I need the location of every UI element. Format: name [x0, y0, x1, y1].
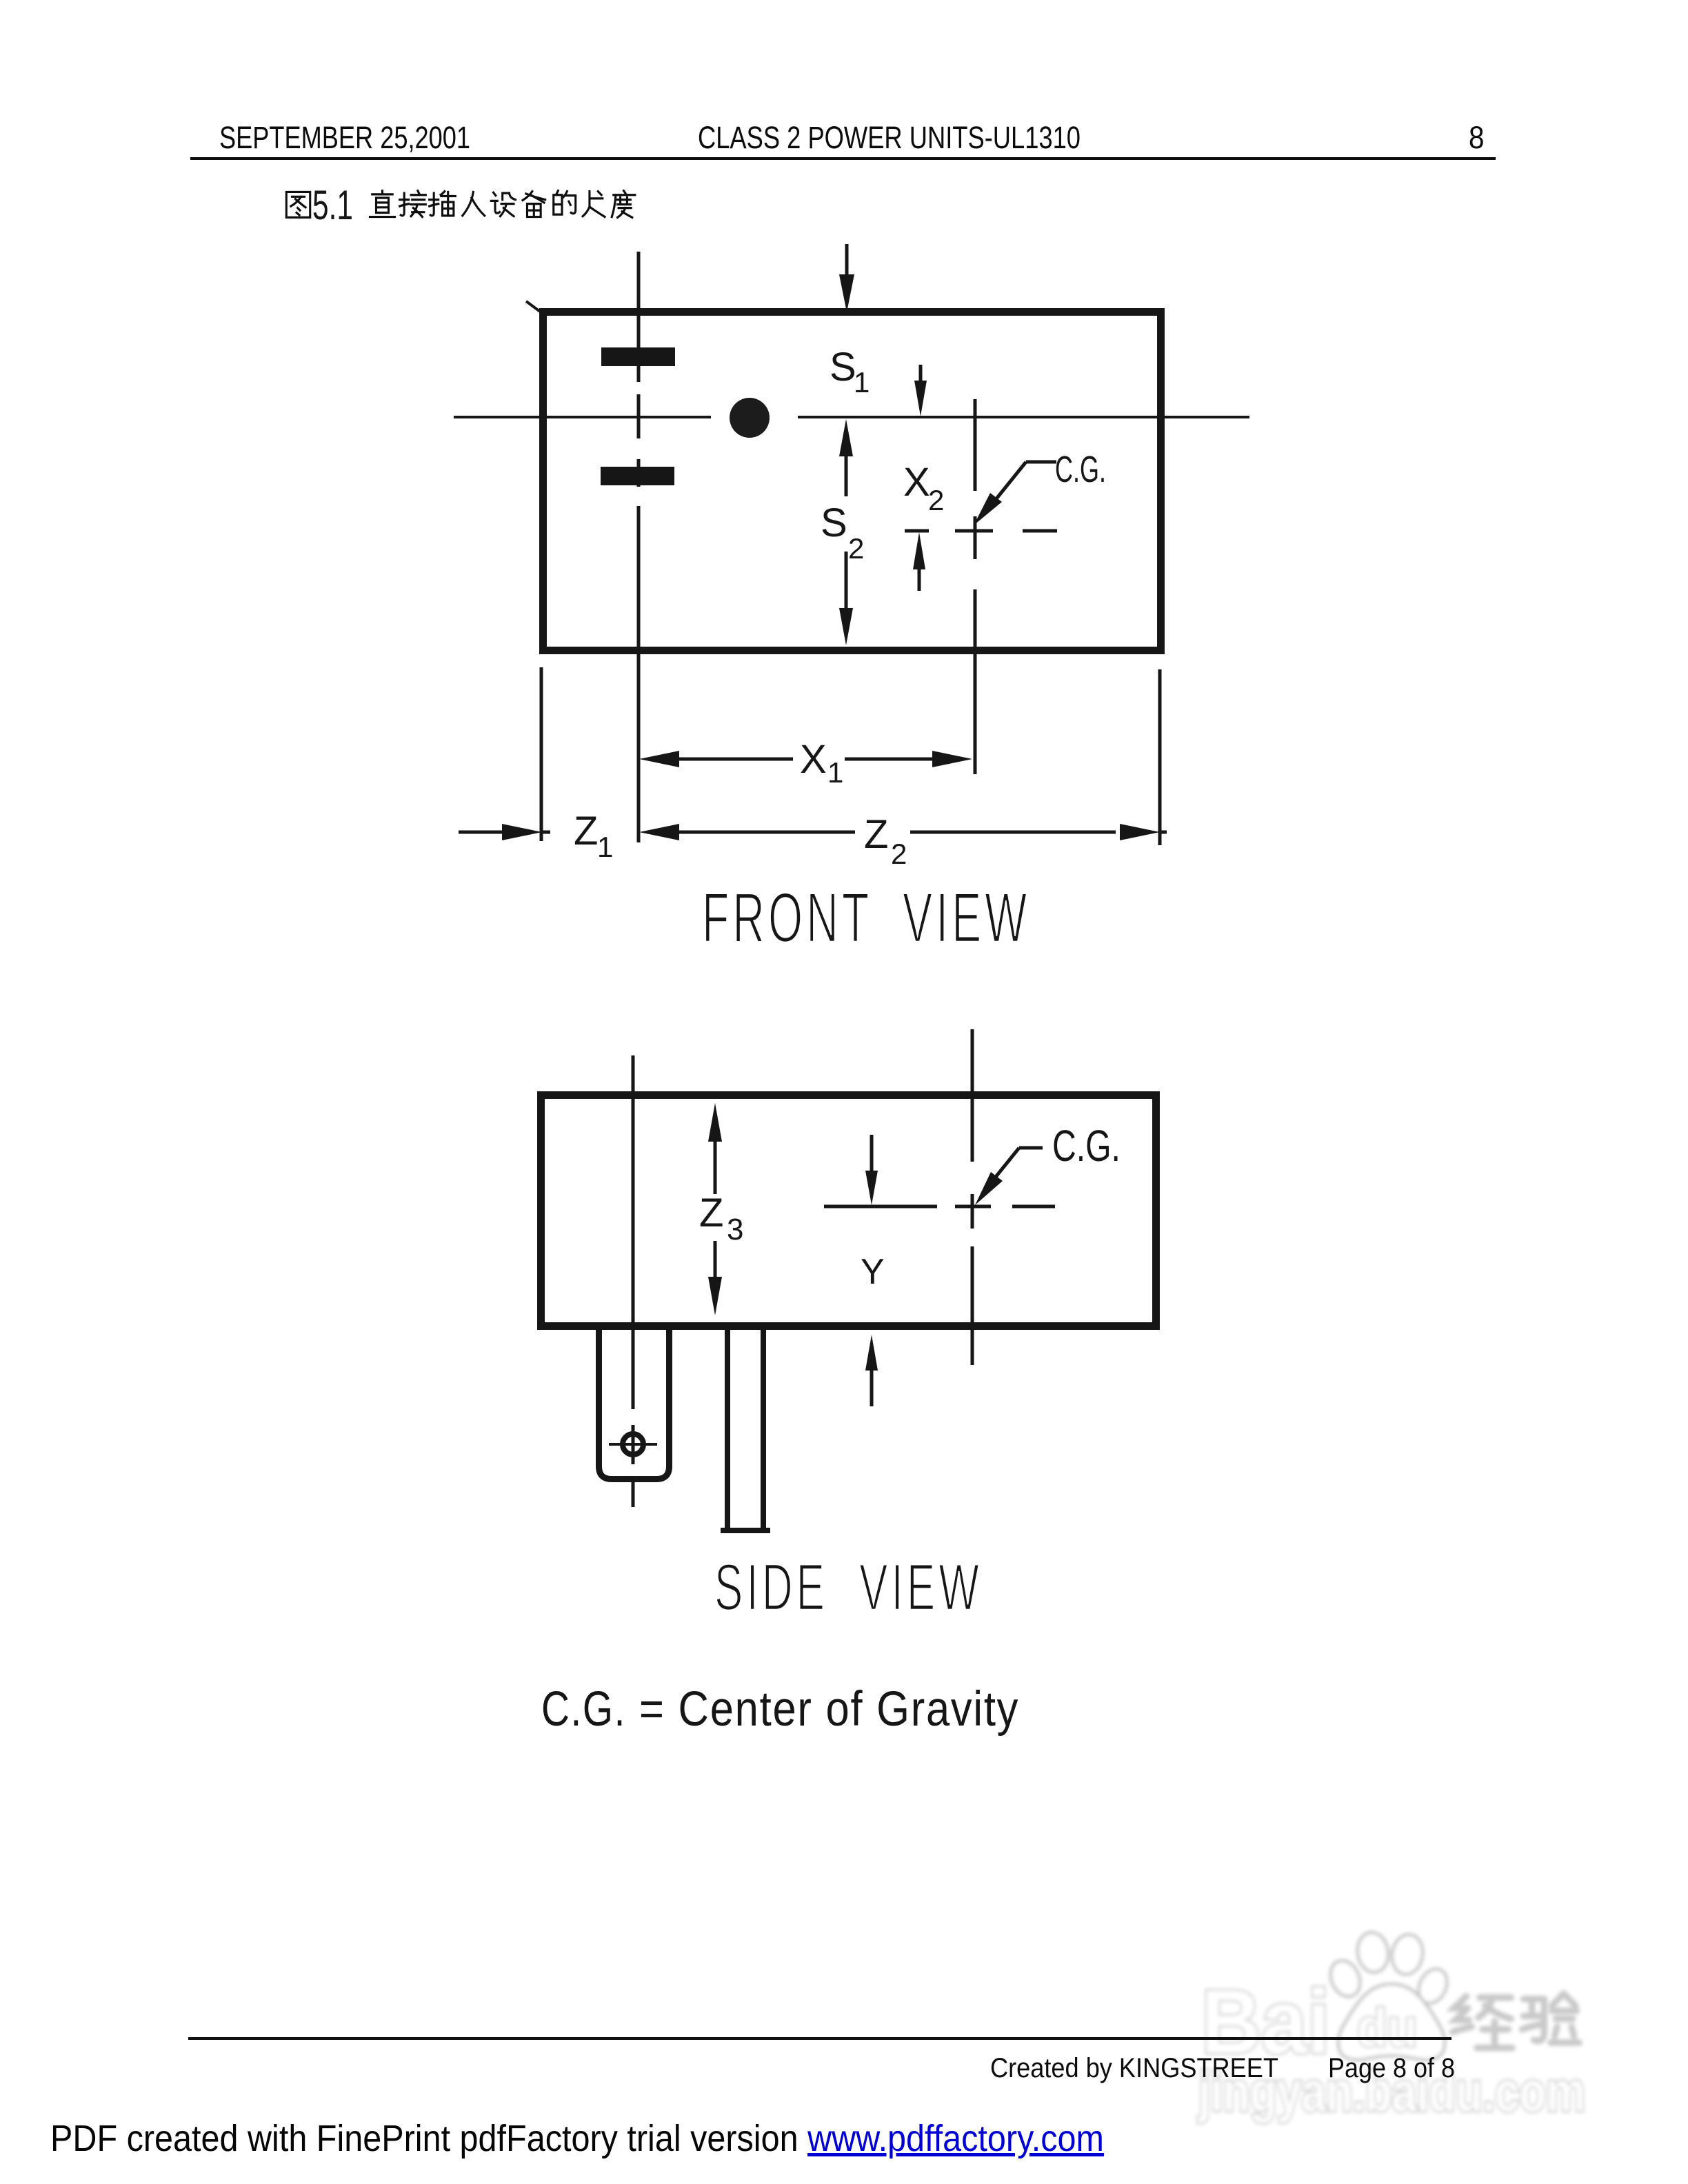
- svg-text:du: du: [1357, 1997, 1418, 2057]
- header page number: [1469, 120, 1485, 156]
- front view blade axis center line: [637, 252, 641, 842]
- watermark paw print: [1325, 1930, 1453, 2060]
- Z2 label: [864, 812, 907, 870]
- hanzi tu (figure): [286, 192, 310, 217]
- pdf factory note: [50, 2117, 1104, 2160]
- C.G. leader (front): [974, 462, 1056, 525]
- front view enclosure outline: [526, 301, 1161, 651]
- hanzi du (degree): [612, 191, 635, 218]
- caption number 5.1: [312, 183, 353, 229]
- Z3 dimension arrows: [708, 1103, 722, 1315]
- lower plug blade: [601, 467, 674, 485]
- side view enclosure outline: [541, 1095, 1156, 1326]
- hanzi ru (enter): [463, 192, 485, 215]
- header rule: [190, 157, 1496, 160]
- S1 top arrow: [839, 244, 854, 312]
- X2 label: [903, 460, 944, 516]
- C.G. label (front): [1055, 448, 1106, 490]
- screw circle on grounding prong: [609, 1425, 657, 1464]
- S2 upper arrow: [839, 419, 853, 496]
- X1 label: [800, 737, 843, 789]
- Z2 dimension line: [639, 824, 1167, 840]
- C.G. legend: [541, 1681, 1019, 1737]
- SIDE VIEW title: [714, 1550, 983, 1624]
- flat blade prong outline: [721, 1330, 770, 1530]
- C.G. horizontal dashes (front): [905, 529, 1057, 533]
- hanzi zhi (straight): [370, 191, 394, 217]
- Y label: [861, 1252, 885, 1292]
- C.G. label (side): [1052, 1121, 1121, 1170]
- S1 label: [830, 345, 870, 398]
- header left date: [219, 120, 470, 156]
- front view horizontal center line: [454, 416, 1249, 418]
- side view prong axis center line: [632, 1055, 635, 1507]
- Y lower arrow: [865, 1335, 878, 1406]
- X2 lower arrow: [913, 532, 925, 591]
- hanzi bei (device): [523, 192, 545, 217]
- C.G. leader (side): [975, 1148, 1043, 1205]
- left extension line below front view: [540, 667, 543, 841]
- Y upper arrow: [865, 1135, 878, 1205]
- watermark hanzi jing: [1453, 1996, 1512, 2048]
- grounding prong outline: [599, 1330, 670, 1479]
- Z1 label: [574, 809, 613, 863]
- hanzi jie (connect): [400, 191, 426, 217]
- Z3 label: [699, 1191, 743, 1246]
- hanzi she (set up): [491, 192, 515, 216]
- face hole dot: [730, 398, 770, 438]
- C.G. vertical center line (side): [971, 1029, 974, 1365]
- hanzi chang (length): [583, 192, 605, 217]
- right extension line below front view: [1158, 669, 1162, 845]
- watermark hanzi yan: [1523, 1994, 1580, 2043]
- hanzi de (of): [554, 191, 576, 214]
- C.G. horizontal dashes (side): [824, 1205, 1055, 1209]
- footer credit: [990, 2053, 1278, 2084]
- S2 lower arrow: [839, 552, 853, 645]
- X2 upper arrow: [914, 365, 927, 416]
- header center title: [698, 120, 1081, 156]
- Z1 left arrow: [459, 824, 550, 840]
- S2 label: [821, 501, 864, 565]
- C.G. vertical center line (front): [974, 399, 977, 774]
- X1 dimension line: [639, 751, 972, 767]
- footer rule: [188, 2037, 1451, 2040]
- FRONT VIEW title: [702, 879, 1030, 958]
- upper plug blade: [601, 347, 675, 366]
- hanzi cha (insert): [430, 192, 456, 216]
